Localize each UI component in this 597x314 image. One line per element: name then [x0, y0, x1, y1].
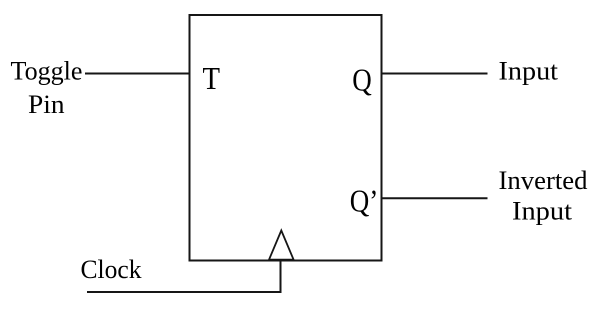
svg-text:Pin: Pin [28, 90, 65, 119]
svg-text:Q’: Q’ [350, 183, 379, 219]
svg-text:Toggle: Toggle [11, 57, 83, 86]
wire Q' output [382, 197, 488, 199]
svg-text:Q: Q [352, 61, 372, 97]
wire Q output [382, 73, 488, 75]
svg-text:T: T [203, 60, 221, 96]
wire toggle input [85, 73, 190, 75]
wire clock horizontal [87, 291, 282, 293]
svg-text:Input: Input [512, 196, 573, 225]
flip-flop body U1 [190, 15, 382, 261]
clock edge triangle [269, 231, 294, 260]
svg-text:Input: Input [499, 56, 559, 85]
svg-text:Inverted: Inverted [499, 166, 588, 195]
wire clock vertical [280, 259, 282, 292]
svg-text:Clock: Clock [81, 255, 142, 284]
